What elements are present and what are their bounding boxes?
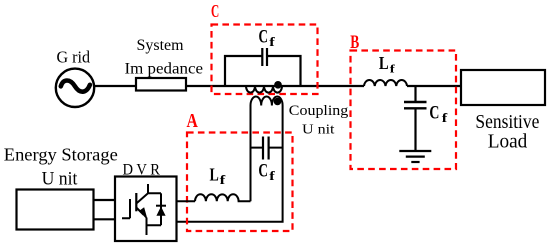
wire storage to DVR top xyxy=(94,199,116,201)
IGBT collector xyxy=(136,184,161,204)
IGBT gate lead xyxy=(122,199,130,218)
label System Impedance xyxy=(125,37,204,78)
svg-text:L: L xyxy=(210,164,219,184)
resistor System Impedance xyxy=(136,78,186,91)
svg-text:U nit: U nit xyxy=(302,123,335,138)
svg-text:B: B xyxy=(350,32,359,53)
energy storage box xyxy=(17,190,94,230)
wire junction to capacitor Cf box B xyxy=(414,86,416,101)
label Energy Storage Unit xyxy=(4,145,118,190)
capacitor Cf box A stubs xyxy=(251,147,283,149)
svg-text:C: C xyxy=(259,28,269,48)
capacitor Cf box A plates xyxy=(263,137,269,160)
inductor Lf box A xyxy=(195,194,251,201)
svg-text:C: C xyxy=(429,104,439,124)
wire Cf branch box C xyxy=(225,56,301,86)
label Cf box A xyxy=(258,162,275,184)
label Cf box C xyxy=(259,28,276,49)
AC source grid xyxy=(56,69,94,107)
main wire inductor B to load xyxy=(407,85,461,87)
polarity dot secondary xyxy=(274,98,282,106)
svg-text:f: f xyxy=(442,110,448,125)
wire capacitor to ground box B xyxy=(414,110,416,151)
inductor Lf box B xyxy=(364,80,407,86)
wire grid to impedance xyxy=(93,85,136,87)
ground xyxy=(399,151,431,162)
capacitor Cf box B plates xyxy=(404,102,427,108)
diode freewheel xyxy=(160,193,162,225)
capacitor Cf box C plates xyxy=(262,48,267,66)
wire impedance to transformer primary xyxy=(186,85,364,87)
transformer primary winding xyxy=(246,86,282,93)
svg-text:f: f xyxy=(269,34,275,49)
region box B xyxy=(351,51,457,170)
svg-text:C: C xyxy=(211,1,219,21)
wire DVR to inductor box A xyxy=(177,200,196,202)
svg-text:Energy Storage: Energy Storage xyxy=(4,145,118,165)
svg-text:Sensitive: Sensitive xyxy=(475,111,539,133)
svg-text:Coupling: Coupling xyxy=(289,103,349,119)
label Cf box B xyxy=(429,104,448,126)
label Lf box A xyxy=(210,164,227,187)
svg-text:L: L xyxy=(379,53,389,73)
svg-text:Load: Load xyxy=(488,131,528,153)
svg-text:A: A xyxy=(187,110,198,132)
label Lf box B xyxy=(379,53,396,75)
transformer secondary winding with legs xyxy=(177,96,283,221)
polarity dot primary xyxy=(274,81,282,89)
IGBT emitter with arrow xyxy=(136,208,143,215)
svg-text:G rid: G rid xyxy=(57,48,91,67)
label Coupling Unit xyxy=(289,103,349,138)
svg-text:U nit: U nit xyxy=(42,168,78,189)
DVR box xyxy=(115,177,177,242)
svg-text:Im pedance: Im pedance xyxy=(125,60,204,77)
wire storage to DVR bottom xyxy=(94,218,116,220)
svg-text:System: System xyxy=(137,37,185,54)
region box C xyxy=(212,25,318,95)
region box A xyxy=(187,133,293,232)
svg-text:f: f xyxy=(220,172,226,187)
IGBT body bar xyxy=(135,193,137,211)
svg-text:C: C xyxy=(258,162,268,182)
label Sensitive Load xyxy=(475,111,539,153)
sensitive load box xyxy=(461,70,545,105)
svg-text:f: f xyxy=(269,168,275,183)
